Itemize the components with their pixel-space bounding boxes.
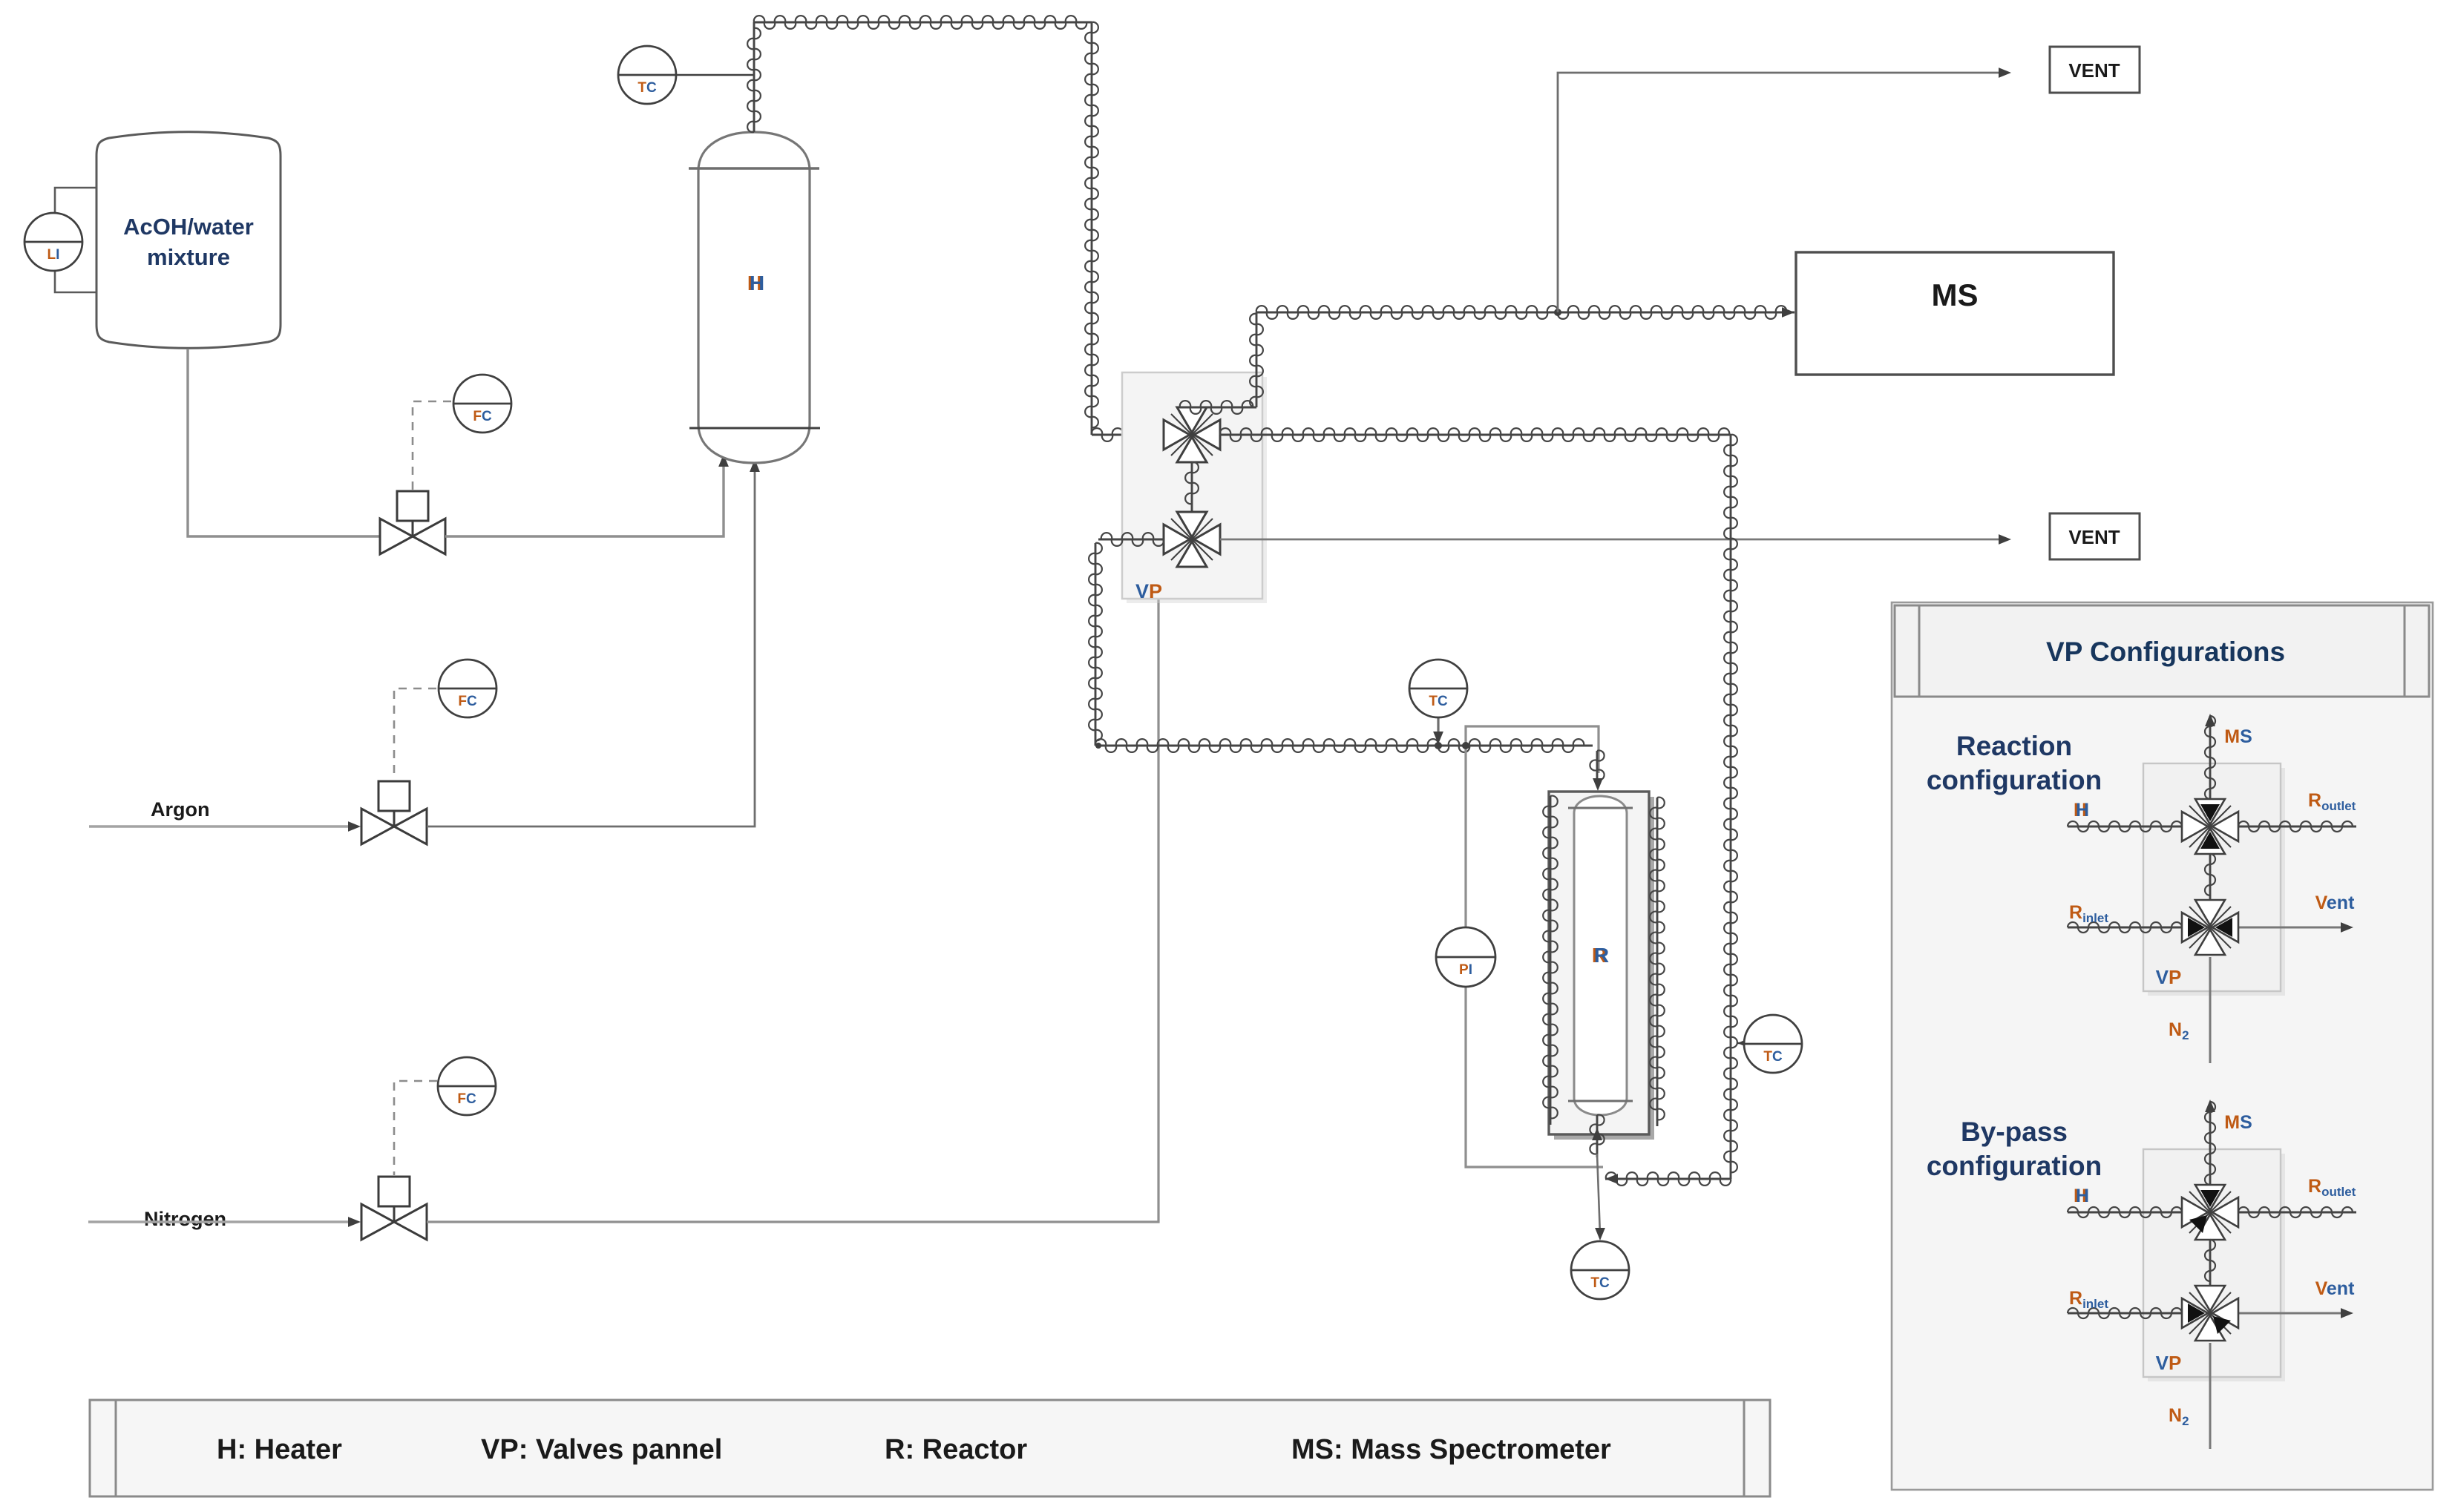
instrument FC3 flow controller [438,1057,496,1115]
node vent tap junction [1554,309,1561,316]
reaction config arrow to MS [2205,714,2215,726]
svg-text:H: Heater: H: Heater [217,1434,342,1465]
svg-text:MS: MS [1932,277,1979,312]
svg-text:AcOH/water: AcOH/water [123,214,254,240]
reactor furnace box [1549,792,1649,1134]
FC2 dashed signal [394,688,436,780]
control valve AcOH [380,491,445,554]
TC3 connector [1737,1042,1745,1045]
svg-text:LI: LI [47,247,60,263]
svg-text:H: H [2076,800,2089,821]
VENT box upper [2050,47,2140,93]
svg-text:H: H [750,272,764,295]
arrow to VENT upper [1999,68,2011,78]
bypass config VP box [2143,1149,2285,1381]
svg-text:MS: MS [2224,1112,2252,1133]
tank AcOH/water mixture [96,132,281,349]
bypass config arrow to MS [2205,1100,2215,1112]
svg-text:FC: FC [457,1091,476,1107]
arrow into TC4 [1595,1228,1605,1240]
heated line R inlet run [1095,739,1593,752]
FC3 dashed signal [394,1081,437,1175]
bypass config H label [2074,1186,2089,1206]
heated line R outlet bottom [1605,1172,1731,1186]
svg-text:mixture: mixture [147,244,230,270]
svg-text:Vent: Vent [2315,1278,2355,1299]
bypass config N2 line [2209,1343,2212,1449]
heated line VP1-VP2 [1185,462,1199,512]
node PI junction [1462,742,1469,749]
arrow into MS [1782,307,1794,318]
svg-text:configuration: configuration [1927,765,2102,795]
instrument TC1 temperature controller [618,46,676,104]
heated line to MS [1256,306,1794,319]
TC2 stem [1437,717,1439,739]
pipe AcOH to heater [445,458,724,536]
heated line H outlet vertical [747,22,761,132]
VENT box lower [2050,513,2140,559]
pipe Argon to heater [427,464,755,826]
heated line reactor entry [1590,751,1604,781]
heated line R inlet downcomer [1089,543,1102,746]
arrow reactor outlet [1592,1128,1602,1140]
heated line H outlet top run [754,16,1092,29]
svg-text:By-pass: By-pass [1961,1117,2068,1147]
heated line into valve VP1 [1092,428,1164,441]
instrument TC4 outlet thermocouple [1571,1241,1629,1299]
pipe to TC4 [1597,1154,1600,1235]
svg-text:TC: TC [637,80,657,96]
heater H vessel [698,132,810,463]
reaction config H label [2074,800,2089,821]
arrow Argon feed [348,821,361,832]
arrow to VENT lower [1999,534,2011,545]
svg-text:PI: PI [1459,962,1472,978]
valves panel VP backdrop [1122,372,1267,603]
svg-text:VENT: VENT [2068,59,2120,82]
svg-text:VP Configurations: VP Configurations [2046,637,2285,667]
svg-text:VP: VP [2156,966,2182,988]
panel valve VP1 4-way [1164,407,1220,462]
reaction config R inlet line [2068,922,2182,933]
reaction config R outlet line [2238,821,2356,832]
pipe to VENT upper [1558,73,1999,312]
svg-text:R: Reactor: R: Reactor [885,1434,1027,1465]
heated line MS riser [1250,312,1263,407]
furnace coil right [1650,798,1665,1126]
pipe Nitrogen feed [88,1220,349,1223]
reactor top tangent [1568,807,1633,809]
reaction config arrow to vent [2341,922,2353,933]
instrument TC3 furnace thermocouple [1744,1015,1802,1073]
pipe Argon feed [89,825,349,828]
svg-text:VP: VP [2156,1352,2182,1374]
instrument FC2 flow controller [439,660,496,717]
arrow into reactor top [1593,778,1603,791]
svg-text:FC: FC [473,409,492,424]
control valve Nitrogen [361,1177,427,1240]
svg-text:Vent: Vent [2315,893,2355,913]
bypass config arrow to vent [2341,1308,2353,1318]
LI tap lower [55,271,96,292]
arrow TC2 tap [1433,732,1443,744]
VP configurations panel [1892,602,2433,1490]
reactor tag R [1592,944,1609,967]
pipe PI sense loop [1466,746,1603,1167]
arrow N2 into VP2 [1187,567,1197,579]
svg-text:Reaction: Reaction [1956,731,2072,761]
control valve Argon [361,781,427,844]
instrument PI pressure indicator [1436,927,1495,987]
pipe N2 to valves panel [427,573,1192,1222]
bypass config H line [2068,1207,2182,1217]
heater top tangent [689,167,819,169]
MS mass spectrometer box [1796,252,2114,375]
svg-text:FC: FC [458,694,477,709]
pipe AcOH outlet [188,349,379,536]
heater bottom tangent [689,427,820,430]
legend bar [90,1400,1770,1496]
svg-text:TC: TC [1763,1049,1783,1065]
reaction config VP box [2143,763,2285,996]
bypass config valve upper [2182,1185,2238,1240]
svg-text:H: H [2076,1186,2089,1206]
arrow TC3 tap [1737,1038,1750,1048]
LI tap upper [55,188,96,213]
svg-text:VP: Valves pannel: VP: Valves pannel [481,1434,722,1465]
instrument FC1 flow controller [453,375,511,433]
reaction config H line [2068,821,2182,832]
heater tag H [747,272,764,295]
arrow into heater inlet 1 [718,454,729,467]
arrow R outlet line [1605,1174,1618,1184]
reaction config vent line [2238,927,2341,929]
heated line VP1 top [1180,401,1256,414]
bypass config vent line [2238,1312,2341,1315]
TC1 connector [675,74,754,76]
furnace coil left [1543,796,1558,1125]
svg-text:Argon: Argon [151,798,209,821]
svg-text:VENT: VENT [2068,526,2120,548]
heated line VP2 left stub [1098,533,1164,546]
FC1 dashed signal [413,401,451,490]
reaction config valve upper [2182,799,2238,854]
svg-text:TC: TC [1429,694,1448,709]
reaction config valve lower [2182,900,2238,955]
heated line reactor outlet stub [1590,1115,1604,1157]
arrow Nitrogen feed [348,1217,361,1227]
reactor bottom tangent [1568,1100,1633,1102]
svg-text:VP: VP [1135,580,1162,602]
heated line H outlet downcomer [1085,22,1098,435]
reactor R tube [1574,796,1627,1115]
node R inlet corner [1095,743,1101,749]
arrow into heater inlet 2 [750,459,760,472]
panel valve VP2 4-way [1164,512,1220,567]
bypass config mid line [2205,1240,2215,1286]
instrument TC2 temperature controller [1409,660,1467,717]
pipe to VENT lower [1220,539,1999,541]
svg-text:Nitrogen: Nitrogen [144,1208,226,1230]
reactor furnace shadow [1554,797,1654,1140]
pipe PI bridge [1466,726,1599,773]
node TC2 junction [1435,742,1442,749]
reaction config MS line [2205,716,2215,799]
bypass config R inlet line [2068,1308,2182,1318]
reaction config mid line [2205,854,2215,900]
bypass config valve lower [2182,1286,2238,1341]
instrument LI level indicator [24,213,82,271]
heated line R outlet run [1220,428,1731,441]
svg-text:MS: MS [2224,726,2252,747]
svg-text:configuration: configuration [1927,1151,2102,1181]
heated line R outlet downcomer [1724,435,1737,1179]
VP configurations title bar [1895,605,2429,697]
reaction config N2 line [2209,957,2212,1063]
bypass config R outlet line [2238,1207,2356,1217]
svg-text:MS: Mass Spectrometer: MS: Mass Spectrometer [1291,1434,1611,1465]
svg-text:R: R [1594,944,1609,967]
svg-text:TC: TC [1590,1275,1610,1291]
bypass config MS line [2205,1102,2215,1185]
